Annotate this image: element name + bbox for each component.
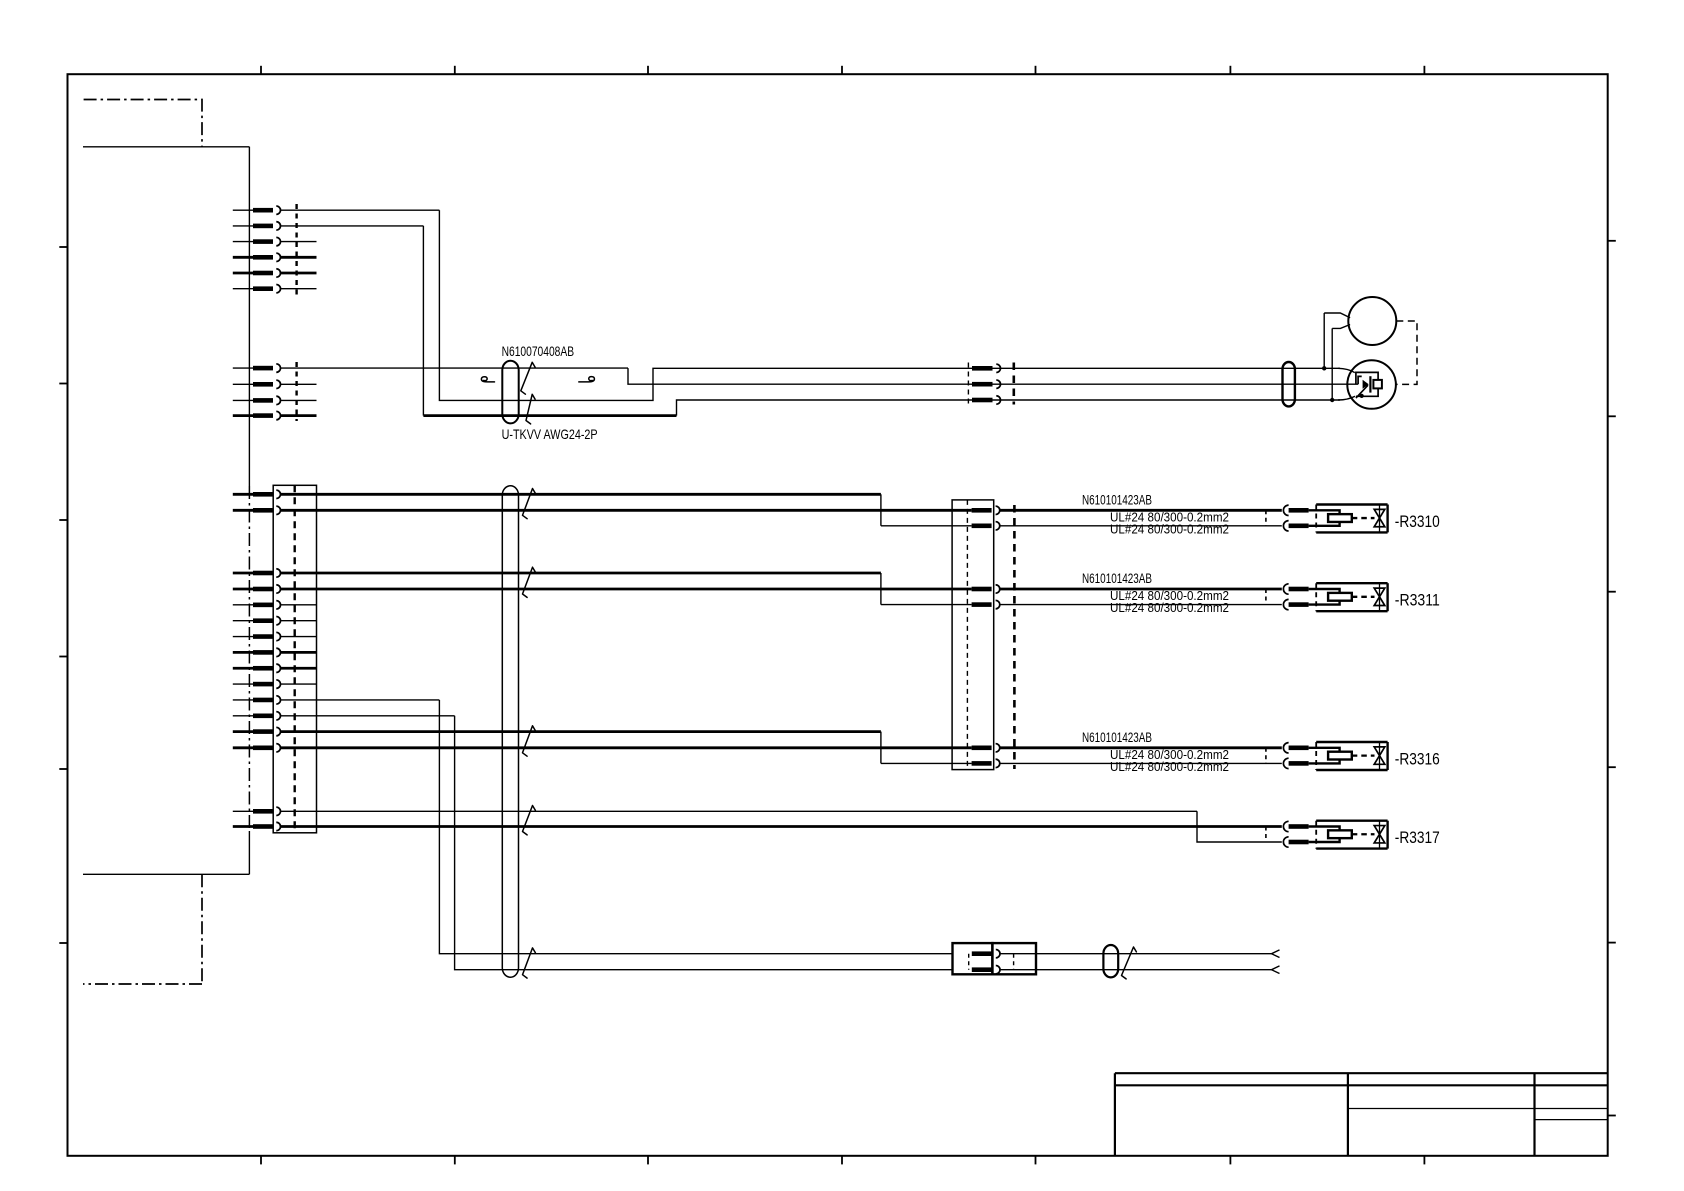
svg-text:-R3316: -R3316 bbox=[1395, 751, 1440, 769]
svg-text:U-TKVV AWG24-2P: U-TKVV AWG24-2P bbox=[502, 426, 598, 442]
svg-text:-R3317: -R3317 bbox=[1395, 829, 1440, 847]
svg-text:-R3311: -R3311 bbox=[1395, 592, 1440, 610]
svg-text:N610101423AB: N610101423AB bbox=[1082, 492, 1152, 507]
svg-text:UL#24 80/300-0.2mm2: UL#24 80/300-0.2mm2 bbox=[1110, 759, 1229, 774]
svg-text:N610101423AB: N610101423AB bbox=[1082, 571, 1152, 586]
svg-text:UL#24 80/300-0.2mm2: UL#24 80/300-0.2mm2 bbox=[1110, 600, 1229, 615]
svg-text:UL#24 80/300-0.2mm2: UL#24 80/300-0.2mm2 bbox=[1110, 521, 1229, 536]
svg-text:-R3310: -R3310 bbox=[1395, 513, 1440, 531]
svg-text:N610070408AB: N610070408AB bbox=[502, 343, 574, 359]
svg-text:N610101423AB: N610101423AB bbox=[1082, 730, 1152, 745]
